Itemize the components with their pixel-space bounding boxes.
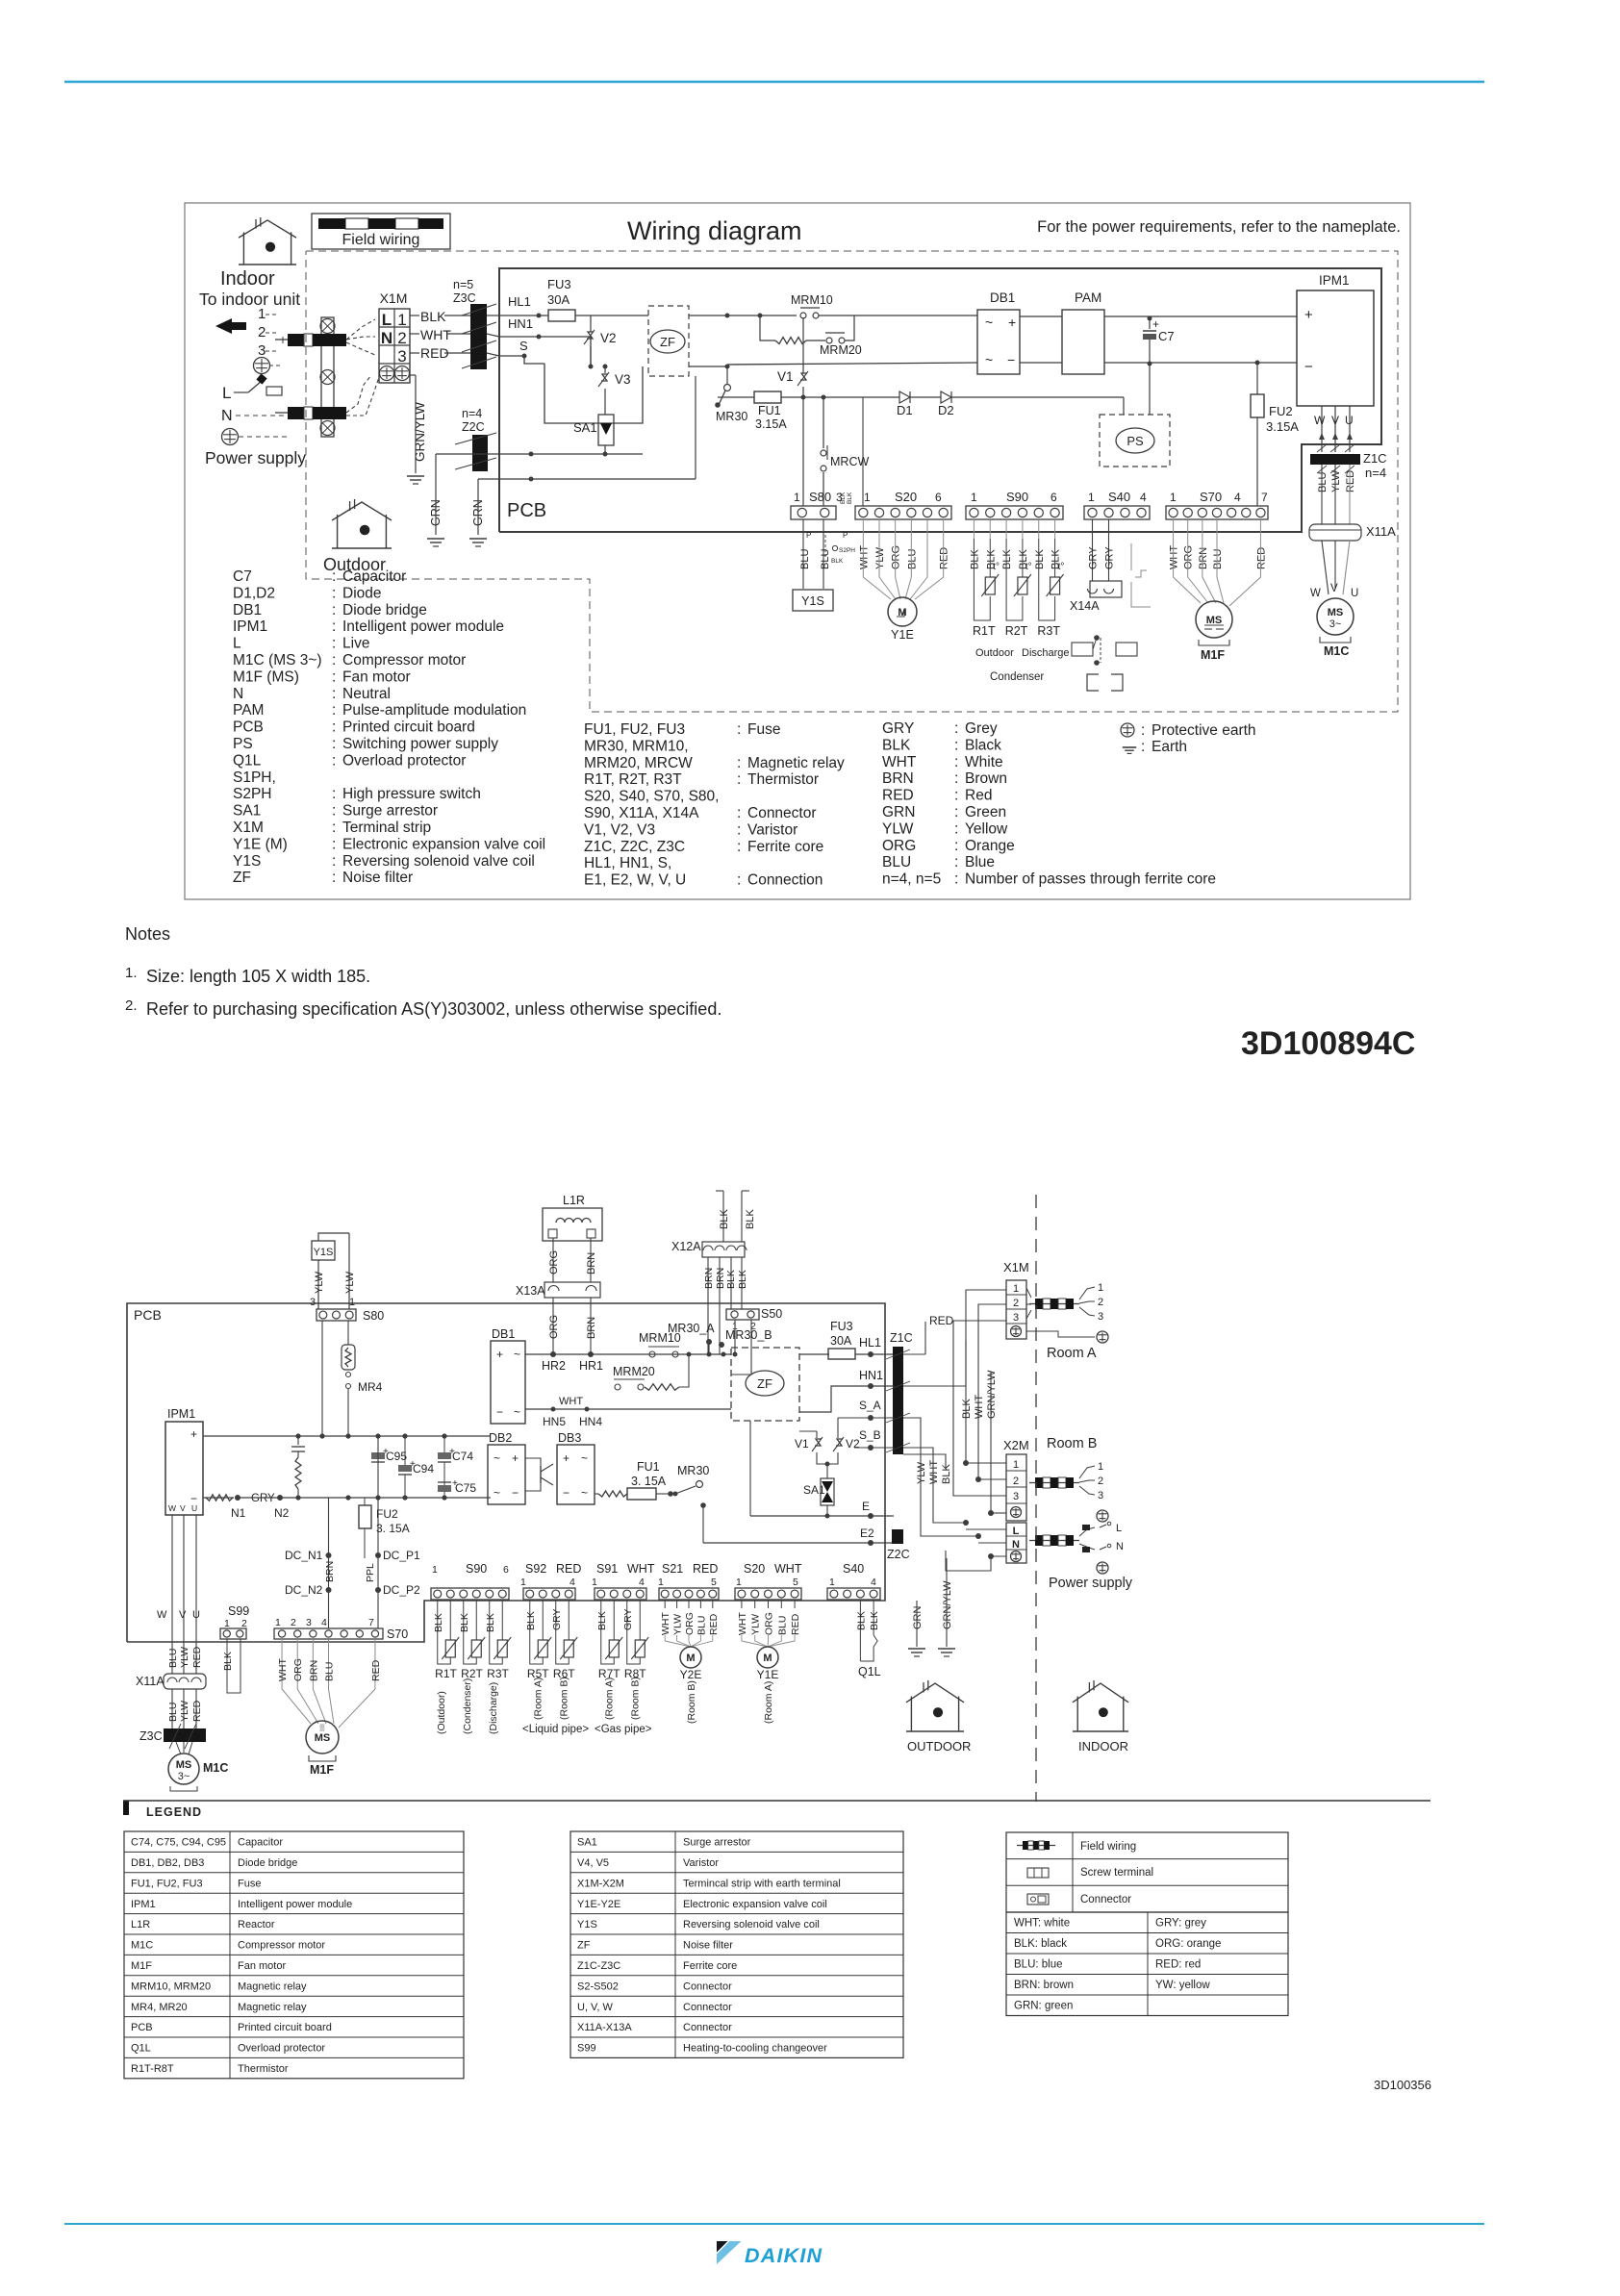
svg-text:BLK: BLK (433, 1613, 444, 1632)
svg-text:n=4: n=4 (462, 407, 482, 420)
svg-text:−: − (563, 1486, 570, 1500)
svg-text:3. 15A: 3. 15A (631, 1475, 667, 1488)
capacitor C94 (404, 1436, 406, 1465)
svg-text:Notes: Notes (125, 924, 170, 944)
svg-text:GRY: GRY (251, 1493, 275, 1504)
svg-text:+: + (563, 1451, 570, 1465)
svg-text:2: 2 (397, 329, 406, 347)
svg-text:S80: S80 (363, 1309, 384, 1323)
svg-text::: : (954, 720, 958, 737)
svg-text:2: 2 (1098, 1476, 1103, 1487)
wires to compressor (1322, 541, 1329, 594)
fuse FU1 (718, 396, 754, 398)
svg-text:MRM10: MRM10 (639, 1331, 681, 1345)
svg-text:Capacitor: Capacitor (342, 568, 406, 585)
svg-text:WHT: WHT (974, 1395, 985, 1419)
wire top bus d2 (525, 1353, 731, 1355)
cap and resistor between buses (297, 1436, 299, 1445)
svg-text:3: 3 (397, 347, 406, 366)
thermistors R1T R2T R3T (973, 539, 975, 616)
legend protective earth (1121, 723, 1134, 737)
svg-text::: : (737, 872, 741, 889)
svg-text:BRN: BRN (882, 770, 914, 787)
svg-text:FU2: FU2 (376, 1507, 398, 1521)
svg-text:Fuse: Fuse (747, 721, 780, 738)
svg-text:4: 4 (871, 1577, 876, 1588)
svg-text:ZF: ZF (577, 1940, 591, 1952)
svg-text:−: − (1007, 352, 1015, 367)
svg-text:n=4, n=5: n=4, n=5 (882, 871, 941, 888)
svg-text:BLK: BLK (745, 1209, 756, 1229)
svg-text::: : (332, 669, 336, 685)
svg-text:FU1, FU2, FU3: FU1, FU2, FU3 (131, 1878, 203, 1889)
svg-text:BLU: BLU (776, 1616, 788, 1635)
svg-text:GRY: GRY (551, 1608, 563, 1630)
svg-text:7: 7 (1261, 491, 1268, 504)
svg-text:Varistor: Varistor (683, 1857, 719, 1869)
svg-text:HN4: HN4 (579, 1415, 602, 1428)
svg-text:X1M-X2M: X1M-X2M (577, 1878, 624, 1889)
svg-text::: : (332, 652, 336, 669)
svg-text:1: 1 (1170, 491, 1177, 504)
capacitor C95 (377, 1436, 379, 1452)
svg-text:Connector: Connector (1080, 1894, 1131, 1905)
diode D2 (910, 396, 941, 398)
svg-text:BLK: BLK (737, 1270, 748, 1289)
svg-text:Magnetic relay: Magnetic relay (747, 755, 845, 771)
svg-text:BLK: BLK (725, 1270, 737, 1289)
svg-text:GRN: GRN (912, 1606, 924, 1630)
wire HL1 to PCB (487, 315, 499, 316)
svg-text::: : (332, 636, 336, 652)
svg-text:BLU: BLU (1317, 472, 1329, 492)
svg-text::: : (332, 803, 336, 820)
svg-text:BLU: BLU (696, 1616, 707, 1635)
svg-text:V: V (179, 1609, 187, 1621)
svg-text:X14A: X14A (1070, 599, 1100, 613)
svg-text:Y1E (M): Y1E (M) (233, 836, 288, 852)
svg-text:V2: V2 (846, 1437, 860, 1451)
svg-text:N: N (233, 686, 243, 702)
svg-text:Surge arrestor: Surge arrestor (342, 803, 438, 820)
svg-text:WHT: WHT (627, 1562, 655, 1576)
svg-text:3: 3 (1098, 1311, 1103, 1323)
svg-text:M: M (686, 1653, 695, 1664)
svg-text:−: − (1304, 359, 1313, 375)
svg-text:V1, V2, V3: V1, V2, V3 (584, 821, 655, 838)
svg-text:MR4: MR4 (358, 1380, 383, 1394)
svg-text:YLW: YLW (179, 1647, 190, 1668)
svg-text::: : (737, 755, 741, 771)
svg-text:1: 1 (592, 1577, 597, 1588)
svg-text:4: 4 (570, 1577, 575, 1588)
svg-text:Z1C, Z2C, Z3C: Z1C, Z2C, Z3C (584, 839, 685, 855)
svg-text:Reactor: Reactor (238, 1919, 275, 1930)
svg-text::: : (332, 736, 336, 752)
svg-text:MR30: MR30 (716, 410, 747, 423)
svg-text::: : (954, 754, 958, 770)
svg-text:1: 1 (1013, 1283, 1019, 1295)
svg-text:ZF: ZF (233, 870, 251, 886)
wire S to PCB (487, 353, 499, 356)
svg-text:INDOOR: INDOOR (1078, 1739, 1128, 1754)
svg-text::: : (332, 602, 336, 618)
svg-text:2: 2 (241, 1618, 247, 1629)
svg-text:BLK: BLK (831, 558, 844, 565)
svg-text:HR2: HR2 (542, 1359, 566, 1373)
svg-text:M1F: M1F (310, 1763, 334, 1777)
svg-text:X1M: X1M (233, 820, 264, 836)
svg-text:C75: C75 (455, 1481, 476, 1495)
svg-text:GRN/YLW: GRN/YLW (986, 1370, 998, 1419)
svg-text:S80: S80 (809, 490, 831, 504)
svg-text:BLK: BLK (969, 549, 980, 569)
wires BLK from top (722, 1191, 724, 1242)
svg-text:HN1: HN1 (508, 316, 533, 331)
compressor motor M1C (1317, 598, 1354, 635)
svg-text::: : (332, 820, 336, 836)
svg-text:X1M: X1M (1003, 1260, 1029, 1274)
svg-text:N: N (381, 329, 392, 347)
svg-text:RED: RED (708, 1613, 720, 1635)
svg-text:To indoor unit: To indoor unit (199, 290, 300, 309)
svg-text:(Outdoor): (Outdoor) (436, 1691, 447, 1734)
svg-text:BLK: BLK (882, 737, 911, 753)
svg-text:Y1S: Y1S (233, 853, 261, 870)
svg-text:WHT: WHT (928, 1460, 940, 1484)
svg-text:Intelligent power module: Intelligent power module (238, 1899, 352, 1910)
svg-text:2: 2 (1013, 1476, 1019, 1487)
reversing solenoid valve coil Y1S d2 (312, 1241, 335, 1260)
svg-text:BLK: BLK (485, 1613, 496, 1632)
fuse FU2 d2 (364, 1498, 366, 1505)
svg-text:BLK: BLK (222, 1652, 234, 1671)
svg-text:LEGEND: LEGEND (146, 1805, 202, 1819)
svg-text:GRY: GRY (1088, 546, 1100, 569)
svg-text:Green: Green (965, 804, 1006, 820)
svg-text:5: 5 (793, 1577, 798, 1588)
svg-text:Noise filter: Noise filter (683, 1940, 733, 1952)
svg-text:4: 4 (1234, 491, 1241, 504)
symbol connector (1027, 1894, 1049, 1905)
svg-text:Brown: Brown (965, 770, 1007, 787)
svg-text:BLK: BLK (941, 1464, 952, 1484)
svg-text:S99: S99 (577, 2043, 596, 2055)
svg-text:ORG: ORG (764, 1612, 775, 1635)
svg-text:S20, S40, S70, S80,: S20, S40, S70, S80, (584, 789, 719, 805)
svg-text:Earth: Earth (1152, 739, 1187, 755)
svg-text:PCB: PCB (131, 2022, 153, 2033)
svg-text:L1R: L1R (563, 1194, 585, 1207)
wires into X2M (966, 1462, 1006, 1464)
svg-text:N2: N2 (274, 1506, 290, 1520)
svg-text:3: 3 (306, 1617, 312, 1628)
svg-text:Diode: Diode (342, 585, 382, 601)
noise filter ZF d2 (731, 1348, 799, 1421)
svg-text::: : (954, 788, 958, 804)
svg-text:R1T: R1T (435, 1667, 457, 1680)
svg-text:Z3C: Z3C (453, 291, 476, 305)
svg-text:X12A: X12A (671, 1240, 701, 1253)
svg-text:D2: D2 (938, 403, 954, 417)
svg-text:S90: S90 (1006, 490, 1028, 504)
svg-text:30A: 30A (547, 292, 570, 307)
svg-text:Power supply: Power supply (1049, 1576, 1133, 1591)
svg-text:t°: t° (993, 562, 1000, 572)
svg-text:RED: RED (1345, 470, 1356, 492)
svg-text:C95: C95 (386, 1450, 407, 1463)
legend earth (1123, 746, 1136, 748)
svg-text:MS: MS (1328, 607, 1344, 618)
svg-text:(Room A): (Room A) (603, 1678, 615, 1720)
indoor outdoor dashed separator (1035, 1195, 1037, 1802)
svg-text:3D100894C: 3D100894C (1241, 1025, 1415, 1062)
svg-text:Z1C: Z1C (890, 1331, 913, 1345)
svg-text::: : (737, 839, 741, 855)
svg-text:1: 1 (349, 1297, 355, 1308)
noise filter ZF (648, 306, 689, 376)
svg-text:1: 1 (736, 1577, 742, 1588)
svg-text:YLW: YLW (1330, 469, 1342, 492)
svg-text:DB1: DB1 (990, 290, 1015, 305)
svg-text:M1C: M1C (1324, 644, 1349, 658)
svg-text:WHT: WHT (774, 1562, 802, 1576)
high pressure switch icon (1130, 543, 1132, 570)
svg-text:1: 1 (520, 1577, 526, 1588)
svg-text:Pulse-amplitude modulation: Pulse-amplitude modulation (342, 702, 526, 719)
svg-text:PAM: PAM (1075, 290, 1101, 305)
svg-text:Z1C-Z3C: Z1C-Z3C (577, 1960, 620, 1972)
wire top bus to MRM10 (727, 315, 797, 316)
svg-text:~: ~ (985, 315, 993, 330)
svg-text:Y1S: Y1S (577, 1919, 597, 1930)
svg-text:Black: Black (965, 737, 1001, 753)
svg-text:Q1L: Q1L (233, 752, 262, 769)
svg-text:V4, V5: V4, V5 (577, 1857, 609, 1869)
svg-text:DB3: DB3 (558, 1431, 581, 1445)
capacitor C7 (1148, 316, 1152, 321)
svg-text:BLU: BLU (799, 549, 811, 569)
svg-text:V: V (1330, 583, 1338, 594)
svg-text:BLK: BLK (1001, 549, 1013, 569)
svg-text:MRCW: MRCW (830, 455, 869, 468)
svg-text:S90, X11A, X14A: S90, X11A, X14A (584, 805, 699, 821)
svg-text:M1F (MS): M1F (MS) (233, 669, 299, 685)
svg-text:BRN: BRN (308, 1660, 319, 1681)
svg-text:S2-S502: S2-S502 (577, 1981, 619, 1992)
svg-text:L: L (382, 311, 392, 329)
svg-text:FU1: FU1 (637, 1460, 660, 1474)
svg-text:Reversing solenoid valve coil: Reversing solenoid valve coil (683, 1919, 820, 1930)
svg-text:BRN: BRN (703, 1268, 715, 1289)
svg-text:MS: MS (1206, 615, 1223, 626)
svg-text:Compressor motor: Compressor motor (342, 652, 466, 669)
svg-text:DC_P2: DC_P2 (383, 1583, 420, 1597)
svg-text:RED: RED (882, 788, 914, 804)
svg-text:S_A: S_A (859, 1399, 881, 1412)
svg-text:1: 1 (658, 1577, 664, 1588)
svg-text:BLK: BLK (525, 1611, 537, 1630)
svg-text:E1, E2, W, V, U: E1, E2, W, V, U (584, 872, 686, 889)
svg-text:Switching power supply: Switching power supply (342, 736, 498, 752)
svg-text:Diode bridge: Diode bridge (342, 602, 427, 618)
svg-text:1: 1 (432, 1564, 438, 1576)
svg-text:N: N (1116, 1541, 1124, 1552)
diode D1 (863, 396, 899, 398)
svg-text:S70: S70 (387, 1627, 408, 1641)
svg-text::: : (332, 618, 336, 635)
svg-text::: : (332, 585, 336, 601)
svg-text:1: 1 (794, 491, 800, 504)
svg-text:Connector: Connector (747, 805, 817, 821)
legend table 1 (124, 1831, 464, 2079)
svg-text:C74: C74 (452, 1450, 473, 1463)
svg-text:DB2: DB2 (489, 1431, 512, 1445)
svg-text:Magnetic relay: Magnetic relay (238, 2002, 307, 2013)
svg-text:+: + (190, 1427, 197, 1441)
svg-text:BLK: BLK (1034, 549, 1046, 569)
svg-text:3~: 3~ (1329, 618, 1342, 630)
svg-text::: : (737, 721, 741, 738)
svg-text:RED: RED (929, 1314, 954, 1327)
svg-text:2: 2 (1098, 1297, 1103, 1308)
indoor house d2 (1073, 1683, 1128, 1703)
svg-text:(Room A): (Room A) (532, 1678, 544, 1720)
svg-text:Electronic expansion valve coi: Electronic expansion valve coil (342, 836, 545, 852)
svg-text:3: 3 (310, 1297, 316, 1308)
svg-text:BRN: brown: BRN: brown (1014, 1980, 1074, 1991)
svg-text:+: + (496, 1348, 503, 1361)
svg-text:Grey: Grey (965, 720, 998, 737)
svg-text:C94: C94 (413, 1462, 434, 1476)
svg-text::: : (954, 871, 958, 888)
fan motor M1F d2 (282, 1639, 311, 1724)
field wiring cable upper (288, 334, 304, 346)
svg-text:HL1, HN1, S,: HL1, HN1, S, (584, 855, 671, 871)
svg-text:DAIKIN: DAIKIN (745, 2244, 823, 2267)
svg-text:HL1: HL1 (859, 1336, 881, 1350)
svg-text:~: ~ (494, 1451, 500, 1465)
svg-text:White: White (965, 754, 1003, 770)
svg-text::: : (332, 752, 336, 769)
svg-text:Termincal strip with earth ter: Termincal strip with earth terminal (683, 1878, 841, 1889)
wire plus bus d2 (203, 1435, 491, 1437)
svg-text:Orange: Orange (965, 838, 1015, 854)
wires W V U from IPM1 (1321, 406, 1323, 452)
svg-text:Printed circuit board: Printed circuit board (342, 719, 475, 736)
svg-text:MR30: MR30 (677, 1464, 709, 1477)
symbol screw terminal (1027, 1868, 1049, 1878)
svg-text:YW: yellow: YW: yellow (1155, 1980, 1210, 1991)
wire WHT bus d2 (525, 1408, 731, 1410)
svg-text:Y1E-Y2E: Y1E-Y2E (577, 1899, 620, 1910)
svg-text:S70: S70 (1200, 490, 1222, 504)
thermistors R1T R2T R3T d2 (437, 1600, 439, 1635)
svg-text:1: 1 (224, 1618, 230, 1629)
svg-text:Field wiring: Field wiring (342, 232, 420, 248)
svg-text::: : (1141, 739, 1145, 755)
svg-text:Protective earth: Protective earth (1152, 722, 1256, 739)
svg-text:WHT: WHT (660, 1612, 671, 1635)
svg-text:n=4: n=4 (1365, 466, 1386, 480)
svg-text:R2T: R2T (1005, 624, 1028, 638)
svg-text::: : (332, 836, 336, 852)
wires W V U from IPM1 d2 (171, 1515, 173, 1674)
svg-text:MS: MS (176, 1759, 192, 1771)
switching power supply PS (1100, 415, 1170, 467)
svg-text:Z2C: Z2C (462, 420, 485, 434)
svg-text:Yellow: Yellow (965, 820, 1008, 837)
protective earth at indoor terminals (254, 358, 270, 374)
svg-text:W: W (168, 1503, 176, 1513)
svg-text:GRN/YLW: GRN/YLW (942, 1580, 953, 1629)
svg-text:~: ~ (514, 1348, 520, 1361)
footer rule (64, 2223, 1484, 2225)
svg-text:MR4, MR20: MR4, MR20 (131, 2002, 188, 2013)
svg-text:Blue: Blue (965, 854, 995, 870)
svg-text:Fan motor: Fan motor (238, 1960, 286, 1972)
svg-text:FU1, FU2, FU3: FU1, FU2, FU3 (584, 721, 685, 738)
svg-text:n=5: n=5 (453, 278, 473, 291)
svg-text:3: 3 (1013, 1491, 1019, 1502)
svg-text:FU1: FU1 (758, 404, 781, 417)
svg-text:6: 6 (503, 1564, 509, 1576)
svg-text:(Discharge): (Discharge) (488, 1682, 499, 1734)
svg-text:5: 5 (711, 1577, 717, 1588)
svg-text:BLK: BLK (459, 1613, 470, 1632)
svg-text:RED: RED (370, 1659, 382, 1681)
svg-text:RED: RED (191, 1646, 203, 1668)
svg-text:Z3C: Z3C (139, 1729, 163, 1743)
svg-text:U: U (191, 1503, 197, 1513)
fuse FU2 (1256, 363, 1258, 394)
svg-text:Fan motor: Fan motor (342, 669, 411, 685)
svg-text:PS: PS (1126, 434, 1144, 448)
svg-text:HL1: HL1 (508, 294, 531, 309)
svg-text:R1T-R8T: R1T-R8T (131, 2063, 174, 2075)
svg-text:ORG: ORG (1183, 545, 1195, 569)
svg-text::: : (737, 771, 741, 788)
wires into X1M (966, 1290, 1006, 1340)
svg-text:YLW: YLW (314, 1271, 325, 1294)
electronic expansion valve coil Y1E (863, 543, 891, 599)
svg-text:BLK: BLK (855, 1611, 867, 1630)
varistor V3 (604, 366, 606, 373)
svg-text:2: 2 (1013, 1298, 1019, 1309)
svg-text:P: P (806, 531, 811, 540)
svg-text:Room B: Room B (1047, 1436, 1097, 1451)
svg-text:M1C: M1C (131, 1940, 153, 1952)
svg-text:Y1S: Y1S (801, 594, 824, 608)
svg-text:L: L (1013, 1526, 1020, 1537)
room A cable (1029, 1303, 1079, 1305)
indoor house icon (239, 220, 296, 238)
svg-text:Y2E: Y2E (680, 1668, 702, 1681)
svg-text:~: ~ (581, 1451, 588, 1465)
svg-text:OUTDOOR: OUTDOOR (907, 1739, 971, 1754)
svg-text:WHT: WHT (1169, 545, 1180, 569)
svg-text:3: 3 (1013, 1312, 1019, 1324)
svg-text:BRN: BRN (586, 1317, 597, 1339)
svg-text:YLW: YLW (874, 546, 886, 569)
svg-text:W: W (157, 1609, 167, 1621)
svg-text:Field wiring: Field wiring (1080, 1841, 1136, 1853)
terminal L N (1006, 1523, 1026, 1563)
svg-text::: : (332, 853, 336, 870)
PCB board outline (499, 268, 1381, 532)
svg-text:MRM20: MRM20 (613, 1365, 655, 1378)
svg-text:BLU: blue: BLU: blue (1014, 1959, 1063, 1971)
